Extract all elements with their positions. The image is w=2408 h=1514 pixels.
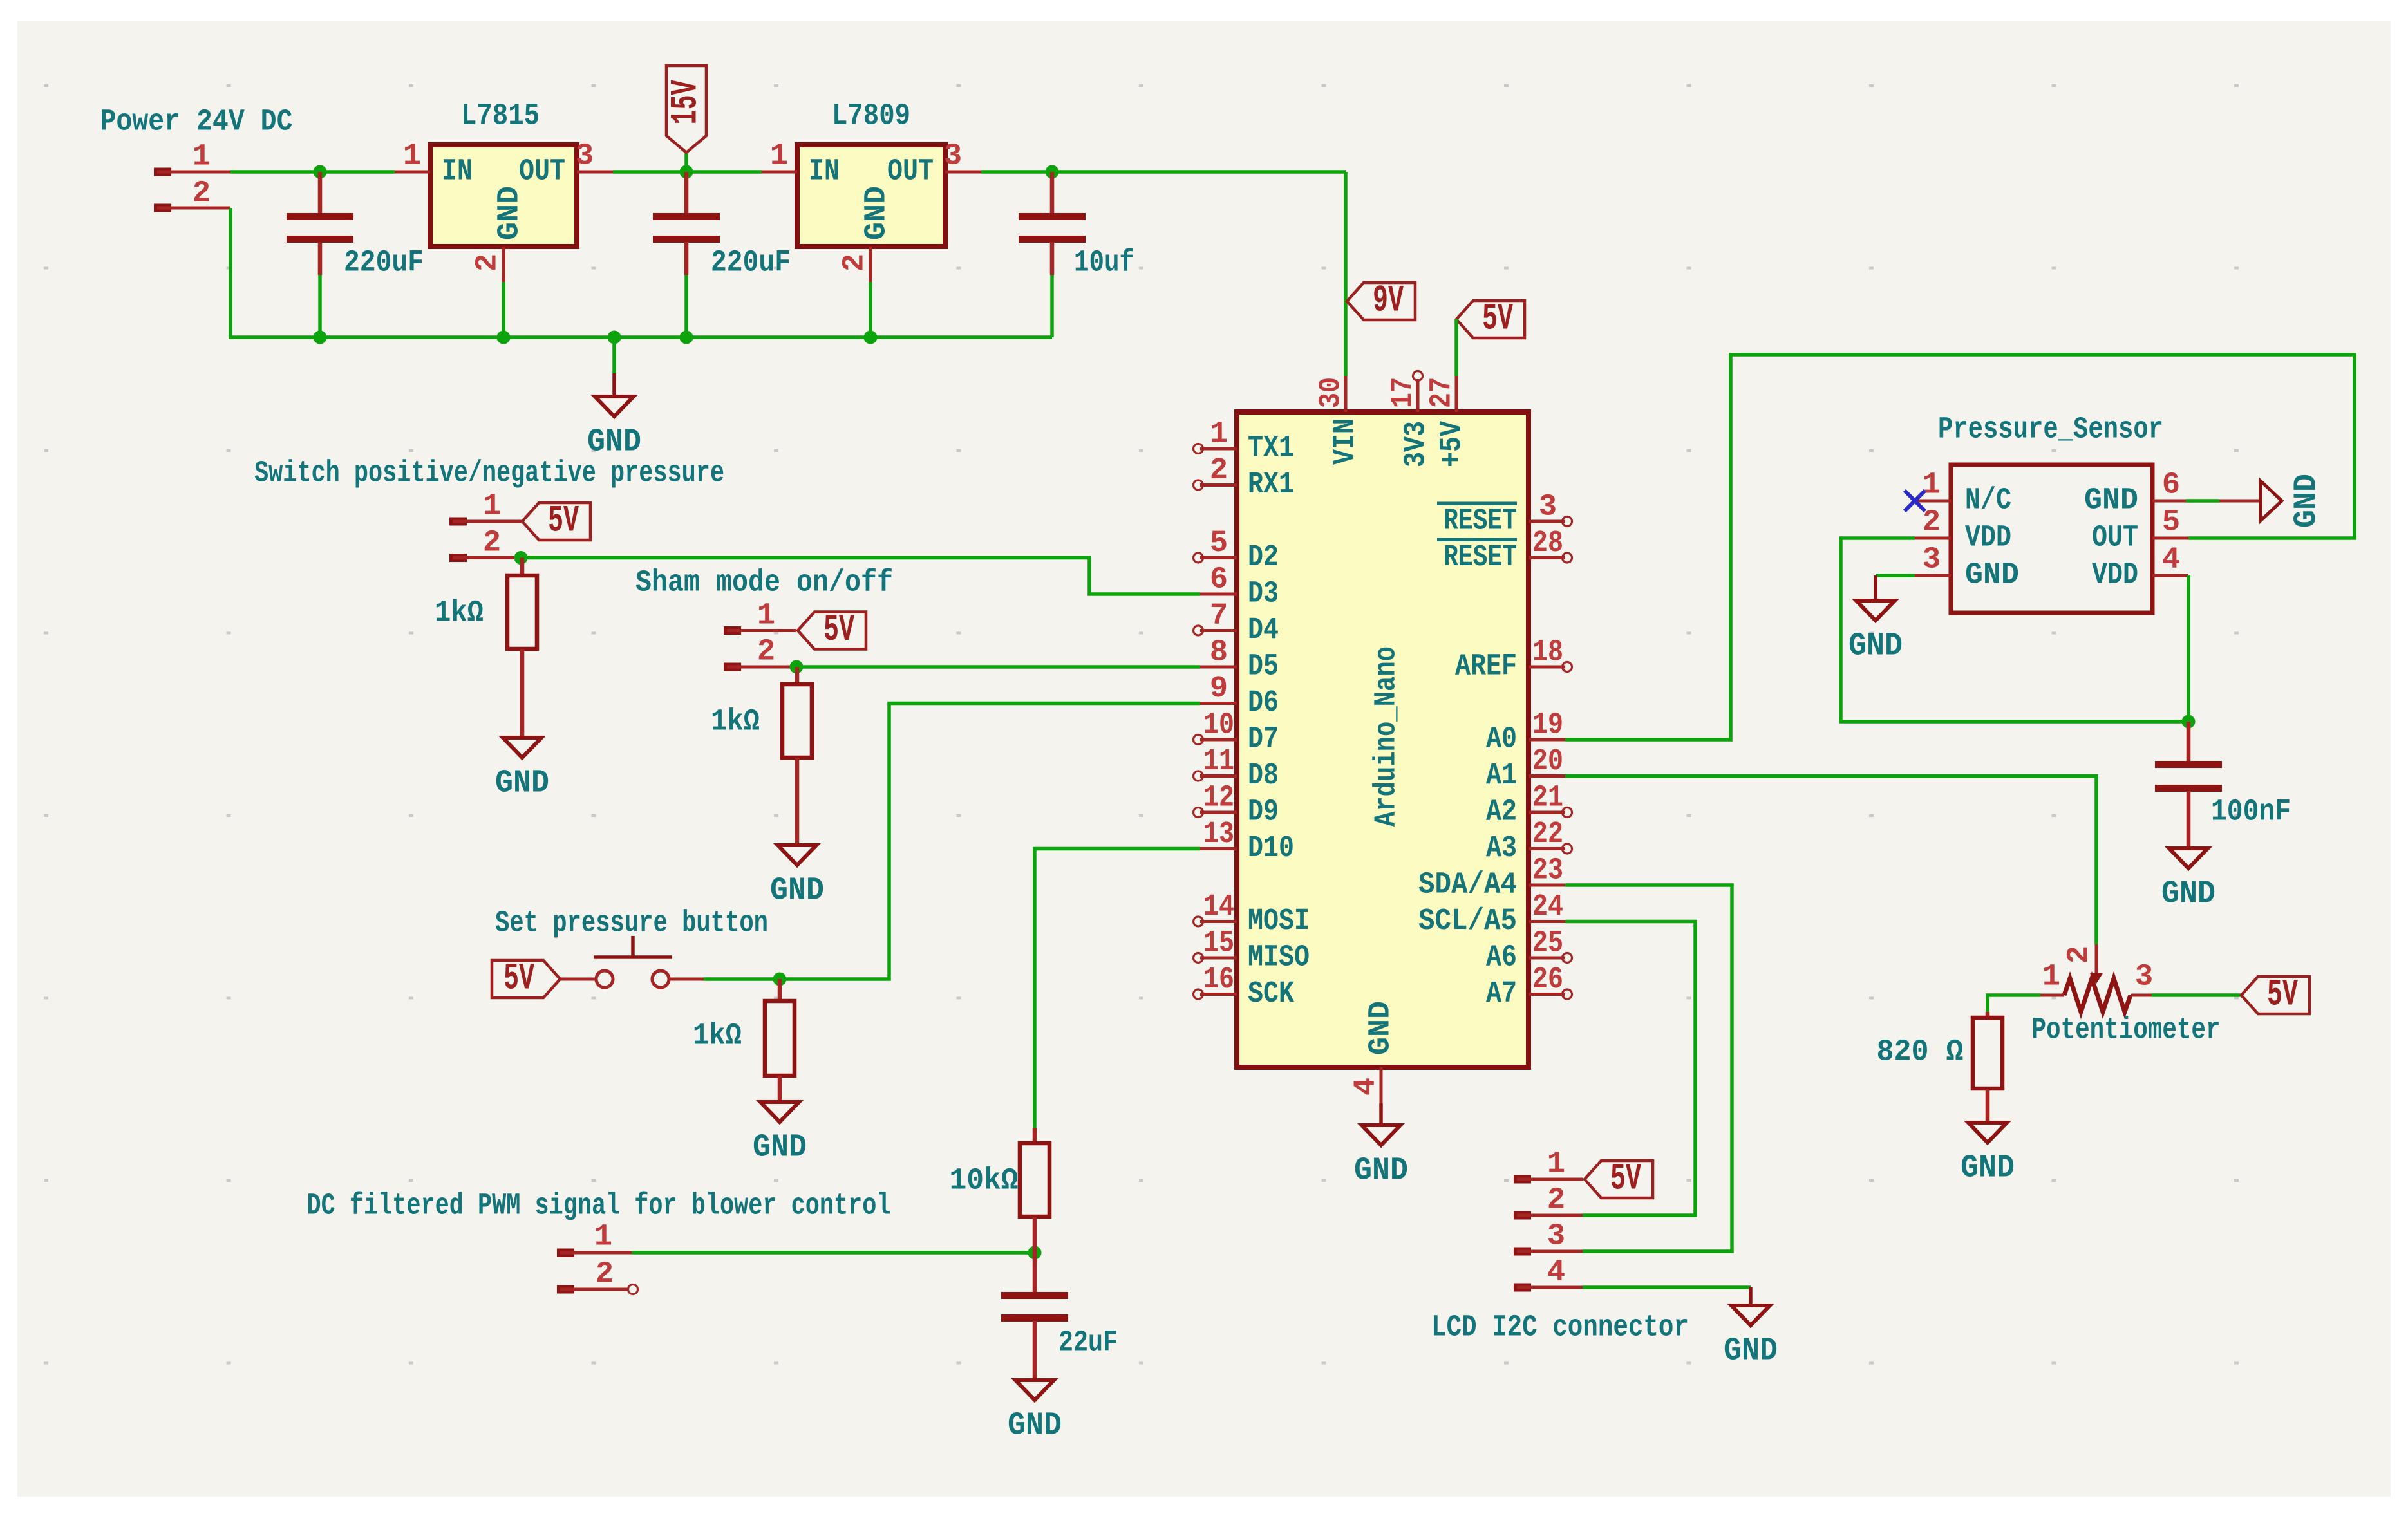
resistor R4 10k (1020, 1128, 1049, 1253)
svg-text:Arduino_Nano: Arduino_Nano (1370, 646, 1404, 827)
svg-text:4: 4 (2162, 543, 2180, 577)
power flag 5V at J3.1 (798, 610, 866, 651)
svg-text:GND: GND (587, 424, 641, 461)
svg-text:GND: GND (495, 765, 549, 802)
svg-text:GND: GND (753, 1130, 807, 1166)
svg-text:1kΩ: 1kΩ (693, 1020, 742, 1054)
svg-text:25: 25 (1532, 927, 1563, 961)
svg-text:D8: D8 (1248, 759, 1279, 793)
power flag 5V at J2.1 (522, 501, 590, 543)
svg-text:GND: GND (1008, 1408, 1062, 1444)
resistor R2 1k (782, 667, 812, 845)
svg-text:MISO: MISO (1248, 941, 1310, 975)
grid dots (44, 84, 2239, 1365)
svg-text:5V: 5V (548, 501, 579, 543)
svg-text:21: 21 (1532, 781, 1563, 816)
U3 pin 13 D10 (1200, 818, 1294, 866)
svg-text:1: 1 (770, 140, 788, 174)
svg-text:L7809: L7809 (832, 100, 910, 134)
svg-text:4: 4 (1350, 1078, 1384, 1096)
U3 pin 14 MOSI (1194, 890, 1310, 939)
svg-text:D4: D4 (1248, 613, 1279, 648)
svg-text:5: 5 (1210, 527, 1228, 561)
svg-text:12: 12 (1203, 781, 1234, 816)
ground symbol R1 (495, 738, 549, 802)
svg-text:5V: 5V (503, 958, 534, 1000)
label Sham mode on/off (635, 566, 893, 601)
svg-text:D5: D5 (1248, 650, 1279, 684)
svg-text:1: 1 (1923, 469, 1941, 503)
svg-text:OUT: OUT (2092, 521, 2138, 556)
connector J1 Power 24V DC label (100, 106, 293, 140)
svg-text:5V: 5V (1482, 299, 1513, 341)
svg-text:OUT: OUT (519, 155, 565, 189)
U3 pin 12 D9 (1194, 781, 1279, 830)
svg-text:22: 22 (1532, 818, 1563, 852)
svg-text:RESET: RESET (1444, 541, 1517, 575)
svg-text:Pressure_Sensor: Pressure_Sensor (1938, 413, 2163, 447)
U4 pin 2 VDD (1915, 506, 2011, 556)
power flag 5V at SW1 (492, 958, 560, 1000)
junction bus C1 (314, 331, 327, 344)
U3 pin 30 VIN (1315, 376, 1363, 465)
svg-text:DC filtered PWM signal for blo: DC filtered PWM signal for blower contro… (307, 1190, 891, 1224)
regulator U1 L7815 (430, 100, 577, 247)
svg-text:20: 20 (1532, 745, 1563, 779)
svg-text:GND: GND (1965, 559, 2019, 593)
potentiometer RV1 (2040, 944, 2153, 1012)
svg-text:TX1: TX1 (1248, 432, 1294, 466)
svg-text:24: 24 (1532, 890, 1563, 924)
wire: J1.2 down to ground bus (230, 208, 1052, 337)
svg-text:10: 10 (1203, 709, 1234, 743)
label C1 value (344, 247, 424, 281)
svg-text:GND: GND (1848, 628, 1903, 665)
ground symbol right-pointing U4.6 (2219, 474, 2326, 528)
wire J5.4 to ground (1583, 1285, 1751, 1289)
svg-text:1: 1 (403, 140, 421, 174)
svg-text:1kΩ: 1kΩ (435, 597, 484, 631)
svg-text:LCD I2C connector: LCD I2C connector (1431, 1311, 1689, 1345)
wire net VDD: U4.2 to U4.4 and C5 (1841, 538, 2188, 722)
wire net D3: J2.2 to Arduino D3 (521, 558, 1200, 595)
svg-text:D3: D3 (1248, 577, 1279, 612)
U1 pin 3 OUT (576, 140, 613, 174)
svg-text:GND: GND (860, 186, 894, 240)
svg-text:GND: GND (1961, 1150, 2015, 1187)
svg-text:14: 14 (1203, 890, 1234, 924)
switch SW1 push button (560, 936, 704, 987)
connector J3 pin 2 (724, 635, 796, 671)
resistor R5 820 (1973, 1012, 2002, 1123)
svg-text:VDD: VDD (1965, 521, 2011, 556)
svg-text:10uf: 10uf (1074, 247, 1134, 281)
svg-text:6: 6 (1210, 563, 1228, 597)
connector J1 pin 2 (154, 177, 230, 212)
U3 pin 24 SCL/A5 (1418, 890, 1565, 939)
ground symbol R3 (753, 1102, 807, 1166)
label DC filtered PWM signal for blower control (307, 1190, 891, 1224)
junction J3.2 / R2 (790, 660, 804, 674)
wire net A1: Arduino A1 to RV1 wiper (1565, 776, 2096, 945)
ground symbol R2 (770, 845, 824, 910)
label RV1 Potentiometer (2032, 1014, 2221, 1048)
wire 24V: J1.1 to L7815 IN (230, 170, 395, 174)
connector J3 pin 1 (724, 599, 796, 635)
power flag 5V at +5V pin (1456, 299, 1525, 377)
capacitor C3 10uf (1019, 172, 1086, 337)
U3 pin 19 A0 (1486, 709, 1565, 757)
svg-text:3: 3 (576, 140, 594, 174)
wire: L7815 OUT to L7809 IN (613, 170, 762, 174)
U3 pin 6 D3 (1200, 563, 1279, 612)
svg-text:GND: GND (2289, 474, 2326, 528)
svg-text:26: 26 (1532, 963, 1563, 997)
svg-text:100nF: 100nF (2211, 796, 2291, 830)
U3 pin 23 SDA/A4 (1418, 854, 1565, 902)
label R4 value (950, 1164, 1019, 1199)
connector J5 pin 3 (1514, 1220, 1583, 1256)
junction bus GND drop (608, 331, 621, 344)
wire RV1.1 to R5 (1988, 995, 2040, 1012)
power flag 9V (1347, 281, 1415, 322)
junction bus L7809 GND (864, 331, 878, 344)
svg-text:9: 9 (1210, 672, 1228, 706)
U2 pin 2 GND (838, 247, 872, 337)
ground symbol LCD (1724, 1287, 1778, 1370)
ground symbol Arduino GND (1354, 1103, 1408, 1190)
wire U4.3 to ground (1876, 574, 1915, 577)
svg-text:7: 7 (1210, 599, 1228, 633)
U3 pin 7 D4 (1194, 599, 1279, 648)
svg-text:GND: GND (2084, 484, 2138, 518)
label switch positive/negative pressure (254, 457, 724, 491)
svg-text:220uF: 220uF (344, 247, 424, 281)
svg-text:3: 3 (2135, 960, 2153, 995)
svg-text:A2: A2 (1486, 796, 1517, 830)
junction top C2 15V (680, 165, 693, 179)
svg-text:AREF: AREF (1455, 650, 1517, 684)
svg-text:A6: A6 (1486, 941, 1517, 975)
connector J4 pin 1 (557, 1220, 632, 1257)
junction top C1 (314, 165, 327, 179)
svg-text:30: 30 (1315, 377, 1349, 408)
svg-text:L7815: L7815 (461, 100, 540, 134)
U3 pin 11 D8 (1194, 745, 1279, 793)
svg-text:8: 8 (1210, 636, 1228, 670)
svg-text:6: 6 (2162, 469, 2180, 503)
svg-text:1: 1 (483, 490, 501, 524)
svg-text:Potentiometer: Potentiometer (2032, 1014, 2221, 1048)
svg-text:10kΩ: 10kΩ (950, 1164, 1019, 1199)
U3 pin 8 D5 (1200, 636, 1279, 684)
wire net PWM: J4.1 to R4/C4 (632, 1251, 1035, 1255)
svg-text:SCL/A5: SCL/A5 (1418, 904, 1517, 939)
svg-text:A0: A0 (1486, 723, 1517, 757)
svg-text:VIN: VIN (1329, 418, 1363, 465)
svg-text:RESET: RESET (1444, 505, 1517, 539)
connector J2 pin 2 (449, 527, 521, 563)
power flag 5V at RV1.3 (2241, 975, 2309, 1016)
svg-text:1: 1 (594, 1220, 612, 1255)
svg-text:28: 28 (1532, 527, 1563, 561)
U3 pin 20 A1 (1486, 745, 1565, 793)
svg-text:2: 2 (2063, 946, 2097, 964)
svg-text:GND: GND (770, 873, 824, 910)
svg-text:4: 4 (1547, 1256, 1565, 1290)
svg-text:18: 18 (1532, 636, 1563, 670)
svg-text:220uF: 220uF (711, 247, 791, 281)
ground symbol C5 (2161, 848, 2215, 913)
U3 pin 15 MISO (1194, 927, 1310, 975)
U4 pin 1 N/C with no-connect cross (1905, 469, 2011, 518)
label Set pressure button (495, 907, 768, 941)
capacitor C2 220uF (653, 172, 720, 337)
svg-text:Sham mode on/off: Sham mode on/off (635, 566, 893, 601)
ground symbol C4 (1008, 1380, 1062, 1444)
svg-text:17: 17 (1387, 377, 1421, 408)
svg-text:2: 2 (1210, 454, 1228, 488)
label R3 value (693, 1020, 742, 1054)
svg-text:VDD: VDD (2092, 559, 2138, 593)
svg-text:27: 27 (1425, 377, 1460, 408)
U3 pin 3 RESET (1437, 491, 1572, 539)
svg-text:2: 2 (1547, 1184, 1565, 1218)
wire: L7809 OUT to VIN (9V net) (981, 172, 1346, 376)
U3 pin 26 A7 (1486, 963, 1572, 1011)
svg-text:OUT: OUT (887, 155, 934, 189)
svg-text:RX1: RX1 (1248, 468, 1294, 502)
svg-text:5V: 5V (2267, 975, 2298, 1016)
svg-text:2: 2 (483, 527, 501, 561)
svg-text:D2: D2 (1248, 541, 1279, 575)
U3 pin 9 D6 (1200, 672, 1279, 720)
svg-text:5V: 5V (823, 610, 854, 651)
IC U4 Pressure_Sensor body (1938, 413, 2163, 613)
resistor R1 1k (507, 558, 537, 738)
power flag 15V (666, 66, 708, 172)
svg-text:D10: D10 (1248, 832, 1294, 866)
svg-text:3: 3 (1923, 543, 1941, 577)
wire net D5: J3.2 to Arduino D5 (796, 665, 1200, 669)
U3 pin 10 D7 (1194, 709, 1279, 757)
svg-text:D9: D9 (1248, 796, 1279, 830)
wire net D10: Arduino D10 to R4 (1035, 849, 1200, 1128)
svg-text:3: 3 (944, 140, 962, 174)
capacitor C5 100nF (2155, 722, 2222, 848)
wire RV1.3 to 5V flag (2152, 993, 2241, 997)
label R2 value (711, 706, 760, 740)
resistor R3 1k (765, 979, 795, 1102)
svg-text:1: 1 (193, 140, 211, 174)
svg-text:1: 1 (757, 599, 775, 633)
wire U4.6 to ground flag (2186, 499, 2219, 503)
svg-text:IN: IN (809, 155, 840, 189)
capacitor C4 22uF (1001, 1253, 1068, 1380)
label C2 value (711, 247, 791, 281)
svg-text:2: 2 (1923, 506, 1941, 540)
connector J5 pin 4 (1514, 1256, 1583, 1292)
ground symbol R5 (1961, 1123, 2015, 1187)
U4 pin 3 GND (1915, 543, 2019, 593)
svg-text:3: 3 (1547, 1220, 1565, 1254)
svg-text:GND: GND (1364, 1001, 1398, 1055)
svg-text:3: 3 (1539, 491, 1557, 525)
svg-text:+5V: +5V (1436, 420, 1470, 467)
label R5 value (1877, 1036, 1964, 1070)
power flag 5V at J5.1 (1585, 1159, 1653, 1201)
svg-text:SDA/A4: SDA/A4 (1418, 868, 1517, 902)
U1 pin 1 IN (395, 140, 430, 174)
connector J4 pin 2 (557, 1258, 638, 1294)
svg-text:2: 2 (757, 635, 775, 669)
svg-text:11: 11 (1203, 745, 1234, 779)
connector J1 pin 1 (154, 140, 230, 176)
svg-text:N/C: N/C (1965, 484, 2011, 518)
junction J2.2 / R1 (514, 551, 528, 565)
svg-text:16: 16 (1203, 963, 1234, 997)
svg-text:1: 1 (1547, 1148, 1565, 1182)
svg-text:A7: A7 (1486, 977, 1517, 1011)
IC U3 Arduino_Nano body (1237, 412, 1529, 1067)
svg-text:3V3: 3V3 (1400, 421, 1434, 467)
wire net A0: Arduino A0 to U4 OUT (1565, 355, 2355, 740)
svg-text:2: 2 (193, 177, 211, 211)
svg-text:22uF: 22uF (1058, 1327, 1118, 1361)
U3 pin 4 GND (1350, 1001, 1398, 1103)
svg-text:A1: A1 (1486, 759, 1517, 793)
svg-text:Switch positive/negative press: Switch positive/negative pressure (254, 457, 724, 491)
svg-text:1kΩ: 1kΩ (711, 706, 760, 740)
U2 pin 3 OUT (944, 140, 981, 174)
wire net SCL: Arduino SCL/A5 to LCD.2 (1565, 922, 1695, 1216)
svg-text:GND: GND (1354, 1153, 1408, 1190)
U3 pin 18 AREF (1455, 636, 1572, 684)
svg-text:GND: GND (493, 186, 527, 240)
U3 pin 25 A6 (1486, 927, 1572, 975)
U1 pin 2 GND (471, 247, 505, 337)
U3 pin 17 3V3 (1387, 371, 1434, 468)
U3 pin 28 RESET (1437, 527, 1572, 575)
ground symbol U4.3 (1848, 575, 1903, 665)
U3 pin 16 SCK (1194, 963, 1295, 1011)
svg-text:9V: 9V (1373, 281, 1404, 322)
regulator U2 L7809 (797, 100, 945, 247)
svg-text:1: 1 (1210, 418, 1228, 452)
U3 pin 22 A3 (1486, 818, 1572, 866)
svg-text:23: 23 (1532, 854, 1563, 888)
svg-text:13: 13 (1203, 818, 1234, 852)
svg-text:820 Ω: 820 Ω (1877, 1036, 1964, 1070)
svg-text:2: 2 (596, 1258, 614, 1292)
U3 pin 2 RX1 (1194, 454, 1295, 502)
svg-text:2: 2 (838, 254, 872, 272)
U3 pin 5 D2 (1194, 527, 1279, 575)
svg-text:Set pressure button: Set pressure button (495, 907, 768, 941)
label LCD I2C connector (1431, 1311, 1689, 1345)
svg-text:A3: A3 (1486, 832, 1517, 866)
wire net SDA: Arduino SDA/A4 to LCD.3 (1565, 885, 1732, 1251)
label R1 value (435, 597, 484, 631)
svg-text:SCK: SCK (1248, 977, 1295, 1011)
junction top C3 (1046, 165, 1059, 179)
U4 pin 4 VDD (2092, 543, 2188, 593)
label C4 value (1058, 1327, 1118, 1361)
label C5 value (2211, 796, 2291, 830)
U3 pin 1 TX1 (1194, 418, 1295, 466)
svg-text:1: 1 (2042, 960, 2060, 995)
U4 pin 6 GND (2084, 469, 2188, 518)
connector J2 pin 1 (449, 490, 522, 526)
svg-text:D7: D7 (1248, 723, 1279, 757)
wire net D6: SW1 to Arduino D6 (704, 704, 1200, 980)
svg-text:19: 19 (1532, 709, 1563, 743)
U4 pin 5 OUT (2092, 506, 2188, 556)
connector J5 pin 1 (1514, 1148, 1583, 1184)
junction bus L7815 GND (497, 331, 511, 344)
junction bus C2 (680, 331, 693, 344)
svg-text:5: 5 (2162, 506, 2180, 540)
U3 pin 21 A2 (1486, 781, 1572, 830)
svg-text:D6: D6 (1248, 686, 1279, 720)
junction PWM node (1028, 1246, 1042, 1260)
U3 pin 27 +5V (1425, 376, 1470, 467)
connector J5 pin 2 (1514, 1184, 1583, 1220)
junction VDD / C5 (2182, 715, 2196, 729)
svg-text:MOSI: MOSI (1248, 904, 1310, 939)
svg-text:15: 15 (1203, 927, 1234, 961)
svg-text:5V: 5V (1610, 1159, 1641, 1201)
label C3 value (1074, 247, 1134, 281)
svg-text:2: 2 (471, 254, 505, 272)
svg-text:15V: 15V (666, 80, 708, 124)
svg-text:Power 24V DC: Power 24V DC (100, 106, 293, 140)
svg-text:GND: GND (1724, 1333, 1778, 1370)
svg-text:IN: IN (442, 155, 473, 189)
capacitor C1 220uF (287, 172, 353, 337)
ground symbol power bus (587, 337, 641, 461)
svg-text:GND: GND (2161, 876, 2215, 913)
junction SW1 / R3 (773, 973, 787, 986)
U2 pin 1 IN (762, 140, 797, 174)
